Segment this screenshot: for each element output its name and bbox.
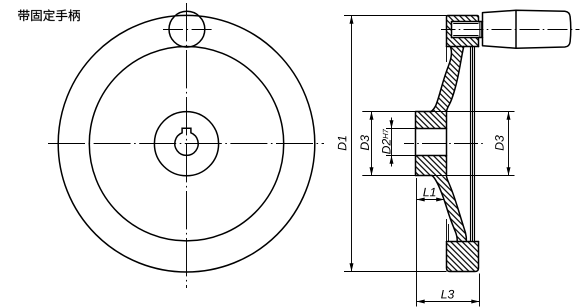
- right view: half section: [416, 16, 479, 272]
- hatch rim top: [447, 16, 479, 47]
- horizontal centerline: [48, 143, 324, 145]
- D1 dimension line: [351, 16, 353, 272]
- hub outline: [416, 112, 433, 176]
- L1 dimension line: [417, 199, 445, 201]
- back edge 2: [472, 47, 474, 242]
- D1 extension lines: [344, 15, 447, 17]
- web lower-left face: [432, 176, 457, 242]
- handle axis centerline: [441, 29, 580, 31]
- wheel axis centerline: [404, 143, 486, 145]
- bore line: [416, 155, 447, 157]
- hub back edge upper: [446, 47, 448, 63]
- D3 left arrows: [370, 112, 374, 120]
- handle neck: [479, 22, 483, 38]
- tapped hole major lines: [452, 21, 479, 23]
- back edge 3: [474, 47, 476, 242]
- hatch rim bottom: [447, 242, 479, 272]
- tapped hole bottom: [451, 22, 453, 38]
- rim inner edge top: [447, 46, 479, 48]
- label L1: [423, 188, 435, 196]
- handle grip outline: [483, 10, 571, 48]
- title text: 带固定手柄: [18, 9, 80, 21]
- D3 shared extension lines: [362, 111, 514, 113]
- D2 dimension line: [391, 118, 393, 167]
- L3 arrows: [417, 300, 425, 304]
- label L3: [441, 290, 454, 299]
- label D3 right: [495, 135, 504, 150]
- hatch hub top: [416, 112, 447, 129]
- inner rim circle: [89, 47, 283, 241]
- L1/L3 left extension line: [416, 178, 418, 307]
- label D2H7: [382, 129, 391, 154]
- D3 right dimension line: [508, 112, 510, 176]
- D2 extension lines: [386, 128, 416, 130]
- web lower-right face: [447, 177, 467, 242]
- vertical centerline: [186, 3, 188, 288]
- hub circle: [154, 112, 218, 176]
- hub right face: [446, 112, 448, 176]
- neck washer lines: [480, 22, 482, 38]
- rim right face below hole: [478, 38, 480, 47]
- L3 dimension line: [417, 301, 480, 303]
- thread minor lines: [453, 23, 478, 25]
- outer rim circle: [58, 15, 315, 272]
- bore with keyway: [175, 128, 198, 155]
- handle circle centerline: [161, 29, 214, 31]
- rim inner edge bottom: [447, 241, 479, 243]
- grip junction line: [515, 10, 517, 48]
- L1 arrows: [417, 198, 425, 202]
- fillet edge lower: [448, 224, 450, 242]
- hatch lower web: [432, 176, 466, 242]
- back edge 1: [470, 47, 472, 242]
- web upper-right face: [447, 47, 464, 112]
- hatch upper web: [431, 47, 464, 112]
- keyway line: [416, 128, 447, 130]
- rim top section outline: [447, 16, 479, 47]
- left view: handwheel front view: [58, 11, 315, 272]
- hub back edge lower: [446, 219, 448, 242]
- D3 right arrows: [507, 112, 511, 120]
- handle circle: [169, 11, 205, 47]
- label D3 left: [360, 135, 369, 150]
- rim bottom section outline: [447, 242, 479, 272]
- web upper-left face: [431, 47, 452, 112]
- D3 left dimension line: [371, 112, 373, 176]
- hatch hub bottom: [416, 156, 447, 176]
- D2 arrows: [390, 120, 394, 128]
- label D1: [338, 136, 346, 150]
- D1 arrows: [350, 16, 354, 24]
- L3 right extension line: [479, 274, 481, 307]
